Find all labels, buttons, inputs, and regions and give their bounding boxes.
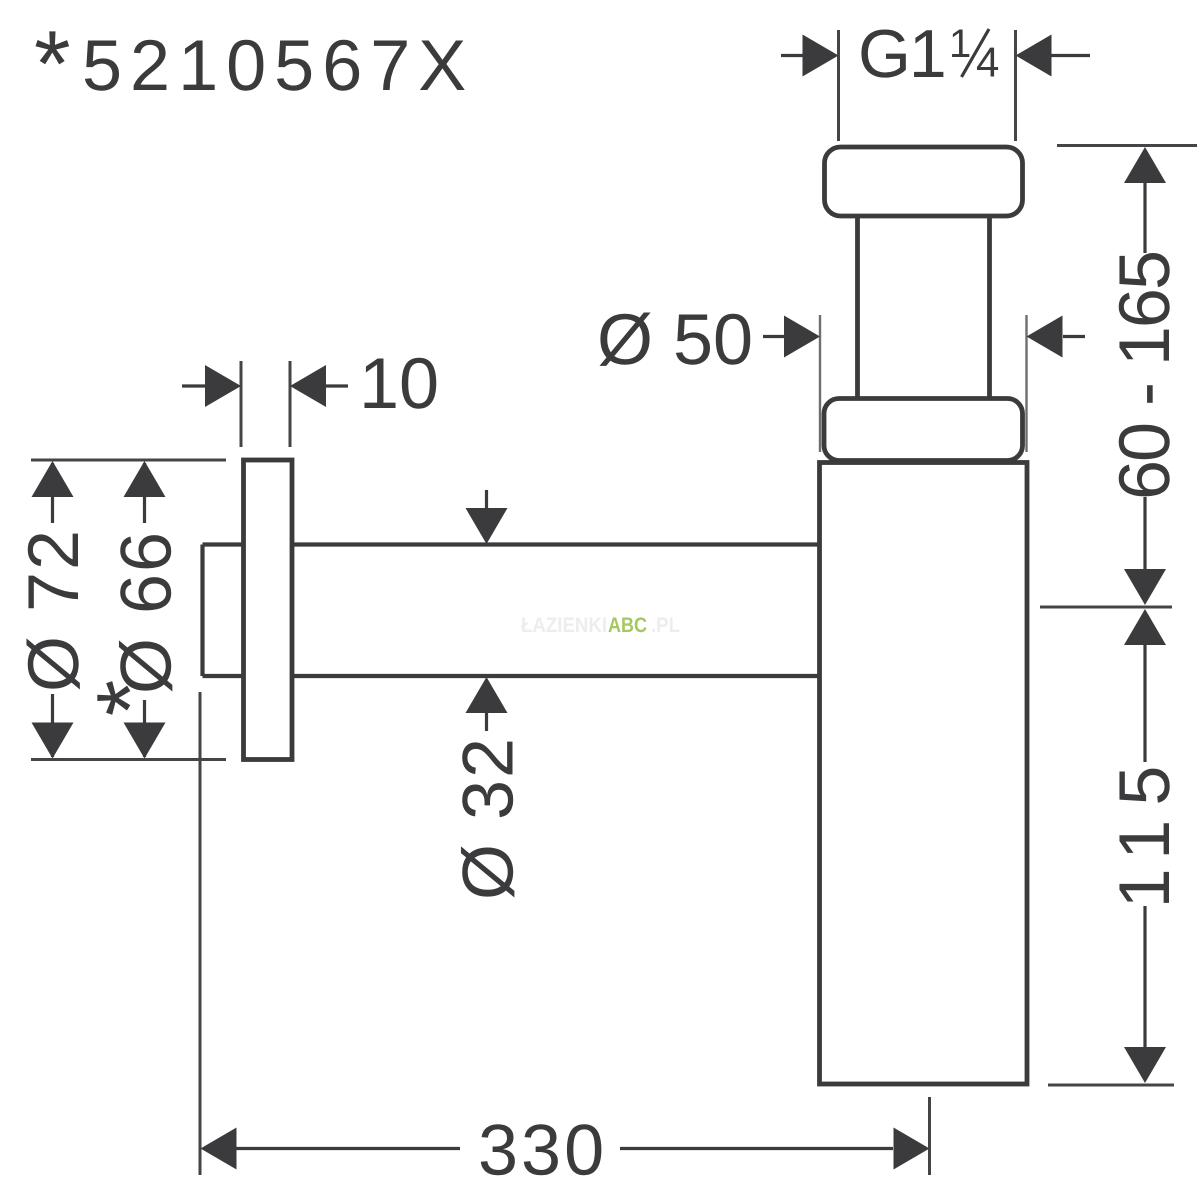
svg-text:10: 10 (359, 344, 439, 424)
svg-text:.PL: .PL (651, 614, 680, 637)
svg-text:G1: G1 (858, 16, 945, 92)
svg-text:115: 115 (1105, 752, 1185, 909)
svg-text:ABC: ABC (608, 614, 647, 637)
svg-text:Ø 50: Ø 50 (597, 300, 753, 380)
svg-text:ŁAZIENKI: ŁAZIENKI (521, 614, 607, 637)
svg-text:60 - 165: 60 - 165 (1105, 250, 1185, 500)
svg-text:330: 330 (478, 1111, 607, 1191)
svg-text:Ø 72: Ø 72 (14, 528, 94, 692)
svg-text:1: 1 (949, 22, 971, 66)
svg-text:*: * (34, 11, 71, 116)
svg-text:5210567X: 5210567X (82, 26, 474, 106)
svg-text:Ø 32: Ø 32 (449, 736, 529, 900)
svg-text:Ø 66: Ø 66 (107, 530, 187, 694)
svg-text:*: * (77, 680, 182, 717)
